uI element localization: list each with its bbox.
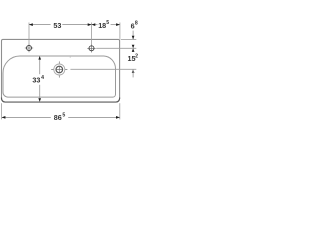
extension line bottom right <box>119 103 121 119</box>
tap hole 2 crosshair <box>87 44 95 52</box>
dimension line 86.5 <box>2 116 120 118</box>
extension line drain level <box>70 68 136 70</box>
tap hole 1 crosshair <box>25 44 33 52</box>
dimension 6.8 arrows <box>132 31 134 40</box>
svg-text:8: 8 <box>135 21 138 27</box>
dimension line 33.4 <box>39 59 41 98</box>
extension line tap hole level <box>96 47 136 49</box>
drain crosshair <box>51 61 67 77</box>
basin inner bowl outline <box>3 56 116 97</box>
extension line bottom left <box>1 103 3 119</box>
extension line tap hole 2 <box>91 23 93 45</box>
extension line tap hole 1 <box>28 23 30 45</box>
svg-text:33: 33 <box>32 75 40 84</box>
washbasin front (bottom) edge darker <box>2 98 120 103</box>
dimension line 18.5 <box>92 24 120 26</box>
svg-text:5: 5 <box>106 20 109 26</box>
svg-text:2: 2 <box>135 54 138 60</box>
svg-text:5: 5 <box>62 113 65 119</box>
extension line right top edge <box>121 38 137 40</box>
washbasin outer outline <box>2 39 120 102</box>
svg-text:4: 4 <box>41 75 44 81</box>
dimension 15.2 arrows <box>132 45 135 49</box>
svg-text:53: 53 <box>53 21 61 30</box>
extension line right edge top <box>119 23 121 39</box>
overflow tick <box>69 56 71 58</box>
svg-text:86: 86 <box>54 113 62 122</box>
svg-text:18: 18 <box>98 21 106 30</box>
dimension line 53 <box>29 24 92 26</box>
